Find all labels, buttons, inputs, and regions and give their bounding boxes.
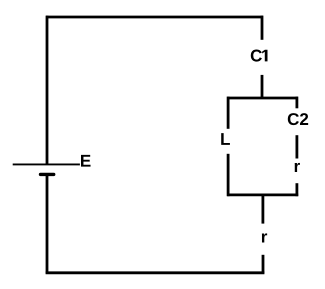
node top of parallel box : top edge wire	[227, 97, 298, 100]
battery E long plate (positive)	[13, 163, 80, 165]
wire bottom (left branch to right branch)	[46, 271, 265, 274]
wire left branch upper (box top to inductor L)	[227, 97, 230, 129]
resistor r (right branch) label	[295, 163, 300, 172]
label E (battery)	[81, 155, 91, 167]
wire left upper (top wire down to battery positive plate)	[46, 16, 49, 164]
inductor L label	[221, 133, 230, 145]
capacitor C2 label	[288, 113, 308, 125]
node bottom of parallel box : bottom edge wire	[227, 193, 298, 196]
wire right top (top wire down to capacitor C1)	[261, 16, 264, 40]
resistor r (series) label	[262, 233, 267, 242]
wire center lower (series resistor r to bottom wire)	[262, 255, 265, 274]
wire top (left branch to right branch)	[46, 16, 263, 19]
battery E short plate (negative)	[41, 173, 54, 176]
wire left branch lower (inductor L to box bottom)	[227, 154, 230, 196]
wire right branch stub (box top to capacitor C2)	[295, 97, 298, 109]
wire center upper (box bottom to series resistor r)	[261, 194, 264, 224]
wire left lower (battery negative plate to bottom wire)	[46, 176, 49, 274]
wire capacitor C1 to parallel box top node	[261, 75, 264, 99]
wire right branch lower (resistor r to box bottom)	[295, 183, 298, 196]
capacitor C1 label	[251, 50, 268, 62]
wire right branch mid (capacitor C2 to resistor r)	[295, 135, 298, 158]
